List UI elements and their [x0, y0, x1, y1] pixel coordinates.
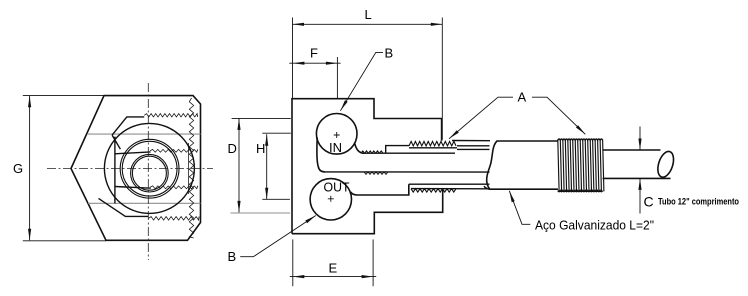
- thread minor circle: [122, 141, 177, 196]
- body outline upper: [292, 99, 442, 234]
- sleeve top edge: [497, 140, 559, 142]
- dim C arrow top: [638, 139, 641, 151]
- thread zigzag top: [144, 114, 197, 117]
- dim G line: [29, 96, 31, 241]
- dim L arrow left: [293, 23, 305, 26]
- thread zigzag upper-mid: [150, 149, 198, 152]
- dim H ext top: [262, 132, 291, 134]
- dim L line: [293, 23, 443, 25]
- dim H arrow top: [265, 134, 268, 146]
- bore circle outer: [131, 154, 169, 192]
- dim L ext right: [441, 18, 443, 140]
- dim G arrow bottom: [28, 229, 31, 241]
- leader B top arrow: [340, 100, 347, 111]
- leader A left arrow: [449, 130, 459, 139]
- dim C line top: [639, 127, 641, 151]
- dim H ext bottom: [262, 198, 290, 200]
- lower nipple root line: [411, 188, 489, 190]
- body outline lower: [292, 189, 443, 234]
- thread zigzag right vertical: [189, 98, 193, 238]
- svg-text:OUT: OUT: [324, 180, 350, 195]
- chamfer hex right flat: [188, 143, 190, 194]
- collar bottom bumpy edge: [558, 191, 603, 192]
- svg-text:E: E: [329, 261, 338, 276]
- dim D arrow bottom: [237, 201, 240, 213]
- IN pocket left wall: [317, 138, 325, 172]
- dim F line: [289, 62, 340, 64]
- svg-text:IN: IN: [329, 140, 342, 155]
- leader A right arrow: [576, 125, 585, 134]
- collar top bumpy edge: [558, 139, 603, 140]
- bore circle inner: [132, 156, 166, 190]
- svg-text:B: B: [228, 249, 237, 264]
- dim H line: [266, 134, 268, 199]
- thread zigzag bottom: [149, 217, 199, 221]
- tube top edge: [603, 149, 661, 151]
- IN port circle: [316, 114, 357, 155]
- collar thread lines: [558, 139, 604, 191]
- dim D ext top: [232, 117, 291, 119]
- dim F arrow left: [293, 62, 305, 65]
- dim G extension bottom: [23, 240, 106, 242]
- upper nipple root line: [409, 147, 457, 149]
- upper tube line b: [457, 148, 490, 150]
- leader B top: [340, 52, 383, 110]
- IN channel top line: [362, 152, 455, 154]
- OUT port circle: [310, 179, 351, 220]
- dim E arrow left: [293, 275, 305, 278]
- dim E ext left: [292, 239, 294, 286]
- dim H arrow bottom: [265, 188, 268, 200]
- lower nipple top line: [409, 183, 490, 185]
- thread zigzag lower-mid: [150, 186, 198, 189]
- dim D line: [238, 118, 240, 212]
- dim C arrow bottom: [638, 178, 641, 190]
- svg-text:C: C: [644, 194, 654, 210]
- chamfer hex vertex slant: [112, 135, 120, 149]
- upper tube line a: [457, 145, 490, 147]
- tube bottom edge: [603, 177, 671, 179]
- leader A right: [532, 97, 585, 134]
- IN channel bottom line: [325, 171, 490, 173]
- horizontal centerline: [47, 167, 213, 169]
- svg-text:G: G: [13, 161, 23, 176]
- hex nut outline (left view): [71, 96, 201, 241]
- dim F ext right: [336, 57, 338, 99]
- dim C line bottom: [639, 178, 641, 213]
- IN internal thread teeth lower: [364, 172, 388, 175]
- leader A left: [449, 97, 513, 139]
- sleeve bottom edge: [490, 188, 559, 190]
- chamfer hex top-left slant: [112, 117, 144, 135]
- vertical centerline: [147, 83, 149, 260]
- tube angled end mouth: [655, 149, 677, 179]
- svg-text:H: H: [256, 141, 265, 156]
- upper nipple crest line right: [452, 140, 490, 142]
- dim D arrow top: [237, 118, 240, 129]
- dim E line: [290, 276, 376, 278]
- OUT channel top line: [358, 184, 409, 195]
- chamfer hex left flat: [114, 137, 116, 204]
- svg-text:D: D: [228, 141, 237, 156]
- svg-text:A: A: [518, 90, 527, 105]
- chamfer hex bottom-left slant: [99, 198, 149, 216]
- IN fillet to channel: [355, 144, 364, 154]
- sleeve curved left end: [484, 141, 497, 189]
- IN internal thread teeth upper: [361, 151, 383, 153]
- lower nipple thread sawtooth: [411, 189, 456, 192]
- upper nipple step: [386, 146, 409, 154]
- dim L ext left: [292, 18, 294, 99]
- chamfer hex chord upper: [115, 152, 151, 154]
- leader B bottom arrow: [305, 216, 316, 224]
- thread major circle: [120, 139, 179, 198]
- leader B bottom: [240, 216, 316, 257]
- svg-text:Tubo 12" comprimento: Tubo 12" comprimento: [658, 197, 739, 208]
- svg-text:L: L: [365, 7, 372, 22]
- chamfer hex chord lower: [115, 187, 151, 189]
- dim E arrow right: [362, 275, 374, 278]
- upper nipple thread sawtooth: [409, 141, 456, 146]
- hex flat edge line upper (gray): [87, 133, 201, 135]
- dim G arrow top: [28, 96, 31, 108]
- svg-text:F: F: [310, 46, 318, 61]
- svg-text:Aço Galvanizado L=2": Aço Galvanizado L=2": [535, 218, 654, 233]
- leader galvanized arrow: [509, 191, 514, 202]
- dim L arrow right: [431, 23, 443, 26]
- dim F arrow right: [326, 62, 338, 65]
- OUT port center mark: [328, 196, 334, 202]
- hex flat edge line lower (gray): [88, 202, 201, 204]
- dim G extension top: [23, 95, 104, 97]
- chamfer circle: [104, 123, 194, 213]
- dim E ext right: [372, 239, 374, 286]
- OUT fillet to channel: [351, 192, 358, 195]
- leader galvanized note: [509, 191, 530, 225]
- dim D ext bottom (gray): [231, 212, 291, 214]
- IN port center mark: [334, 132, 340, 138]
- svg-text:B: B: [385, 46, 394, 61]
